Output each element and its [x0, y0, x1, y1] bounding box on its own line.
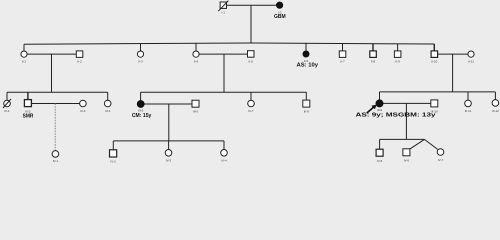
individual IV:6 male — [403, 149, 410, 163]
individual II:2 male spouse — [76, 51, 83, 64]
svg-text:IV-6: IV-6 — [404, 159, 410, 163]
svg-text:II-8: II-8 — [371, 60, 376, 64]
individual III:7 female — [248, 100, 255, 113]
wire: family C sibship line — [380, 91, 496, 93]
wire: tick III:8 — [305, 92, 307, 100]
individual III:1 deceased female — [3, 99, 11, 113]
svg-text:IV-4: IV-4 — [221, 159, 227, 163]
wire: family A sibship line — [7, 91, 108, 93]
individual II:9 male — [394, 51, 401, 64]
svg-text:III-7: III-7 — [248, 109, 253, 113]
wire: elbow down to III:4 — [107, 92, 109, 100]
individual II:7 male — [339, 51, 346, 64]
individual III:3 female spouse — [80, 100, 87, 113]
wire: drop II:4/II:5 to family B sibship — [223, 54, 225, 92]
wire: tick III:7 — [250, 92, 252, 100]
svg-text:III-4: III-4 — [105, 109, 110, 113]
individual II:5 male spouse — [248, 51, 255, 64]
wire: couple line II:4-II:5 — [199, 53, 247, 55]
wire: elbow down to III:9 — [379, 92, 381, 100]
individual III:4 female — [104, 100, 111, 113]
individual III:11 female — [465, 100, 472, 113]
wire: gen I drop to gen II sibship — [250, 5, 252, 43]
individual IV:4 female — [221, 150, 228, 163]
individual IV:2 male — [110, 150, 117, 164]
wire: elbow down to III:1 — [6, 92, 8, 100]
wire: drop II:10/II:11 to family C sibship — [452, 54, 454, 92]
svg-text:GBM: GBM — [274, 14, 286, 20]
wire: couple line II:1-II:2 — [27, 53, 76, 55]
individual III:6 male spouse — [192, 100, 199, 113]
wire: couple line III:5-III:6 — [144, 103, 192, 105]
svg-text:IV-1: IV-1 — [53, 159, 59, 163]
svg-text:II-2: II-2 — [77, 60, 82, 64]
svg-text:III-9: III-9 — [377, 108, 382, 112]
wire: drop II:1/II:2 to family A sibship — [51, 54, 53, 92]
wire: tick II:1 — [23, 44, 25, 51]
svg-text:IV-5: IV-5 — [377, 159, 383, 163]
svg-text:I-1: I-1 — [222, 11, 226, 15]
wire: couple line II:10-II:11 — [438, 53, 468, 55]
svg-text:II-11: II-11 — [468, 60, 474, 64]
wire: diagonal to IV:7 — [424, 139, 437, 149]
wire: tick II:4 — [195, 43, 197, 51]
wire: family B' sibship line — [113, 140, 224, 142]
svg-text:III-1: III-1 — [4, 109, 9, 113]
individual II:3 female — [137, 51, 143, 64]
wire: drop III:5/III:6 to family B' sibship — [168, 104, 170, 141]
individual IV:3 female — [165, 150, 172, 163]
wire: tick III:2 (overshoots into square) — [27, 92, 29, 103]
individual IV:7 female — [437, 149, 444, 162]
wire: family C' sibship line — [380, 138, 425, 140]
individual II:10 male — [431, 51, 438, 64]
svg-text:CM: 15y: CM: 15y — [132, 113, 152, 119]
individual III:2 male SMR — [23, 100, 34, 120]
wire: tick IV:3 — [168, 141, 170, 150]
wire: gen II sibship line — [24, 43, 434, 44]
proband arrow — [367, 105, 377, 113]
individual I:1 deceased male — [218, 1, 228, 15]
svg-text:II-4: II-4 — [194, 60, 199, 64]
wire: drop III:2/III:3 to IV:1 (faint) — [54, 104, 56, 151]
wire: elbow down to III:5 — [140, 92, 142, 100]
wire: tick II:6 — [305, 43, 307, 51]
wire: couple line III:9-III:10 — [383, 102, 431, 104]
individual IV:5 male — [376, 149, 383, 163]
individual II:4 female — [193, 51, 199, 64]
individual III:5 affected female CM 15y — [132, 101, 152, 119]
wire: couple line III:2-III:3 — [31, 103, 79, 105]
individual III:12 female — [492, 100, 499, 113]
svg-text:III-12: III-12 — [492, 109, 499, 113]
wire: gen I couple line — [227, 4, 277, 6]
wire: elbow down to IV:2 — [112, 141, 114, 150]
svg-text:III-11: III-11 — [465, 109, 472, 113]
wire: tick II:10 — [433, 44, 435, 51]
wire: tick II:3 — [140, 44, 142, 51]
wire: elbow down to IV:5 — [379, 139, 381, 149]
wire: elbow down to IV:4 — [223, 141, 225, 150]
svg-text:II-5: II-5 — [249, 60, 254, 64]
individual III:9 affected female proband AS 9y MSGBM 13y — [376, 100, 383, 112]
individual II:8 male — [370, 51, 377, 64]
svg-text:II-3: II-3 — [138, 60, 143, 64]
svg-text:AS: 9y; MSGBM: 13y: AS: 9y; MSGBM: 13y — [356, 113, 436, 119]
svg-text:IV-2: IV-2 — [110, 160, 116, 163]
individual II:6 affected female AS 10y — [297, 51, 319, 69]
svg-text:II-1: II-1 — [22, 60, 27, 64]
wire: diagonal to IV:6 — [410, 139, 425, 149]
svg-text:IV-3: IV-3 — [166, 159, 172, 163]
wire: tick II:8 — [372, 44, 374, 51]
svg-text:III-6: III-6 — [193, 109, 198, 113]
individual II:11 female spouse — [468, 51, 474, 64]
svg-text:III-3: III-3 — [80, 109, 85, 113]
svg-text:II-9: II-9 — [395, 60, 400, 64]
wire: drop III:9/III:10 to family C' sibship — [405, 103, 407, 139]
svg-text:SMR: SMR — [23, 113, 34, 119]
individual III:8 male — [303, 100, 310, 113]
svg-text:AS: 10y: AS: 10y — [297, 63, 319, 69]
svg-text:II-10: II-10 — [431, 60, 437, 64]
wire: elbow down to III:12 — [494, 92, 496, 100]
individual III:10 male spouse — [431, 100, 438, 114]
individual I:2 affected female GBM — [274, 2, 286, 20]
svg-text:II-7: II-7 — [340, 60, 345, 64]
svg-text:IV-7: IV-7 — [438, 158, 444, 162]
svg-text:III-10: III-10 — [431, 109, 438, 113]
wire: tick II:9 — [397, 44, 399, 51]
wire: family B sibship line — [141, 91, 307, 93]
wire: tick II:7 — [342, 43, 344, 51]
wire: tick III:11 — [467, 92, 469, 100]
individual IV:1 female — [52, 151, 59, 164]
individual II:1 female — [21, 51, 27, 64]
svg-text:III-8: III-8 — [304, 109, 309, 113]
